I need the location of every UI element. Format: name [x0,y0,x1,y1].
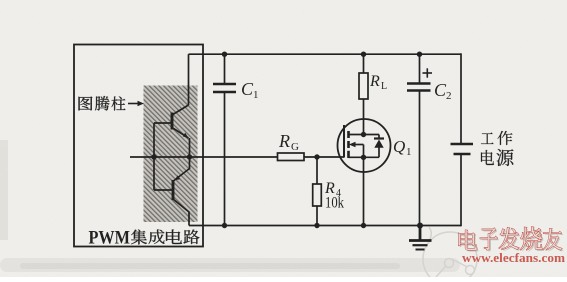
label 工作电源 [481,131,514,166]
top rail [189,53,462,55]
node on bottom rail at source [361,223,366,228]
resistor R4 [313,157,322,226]
node on top rail at C2 [417,52,422,57]
node on bottom rail at C1 [222,223,227,228]
label RL [369,73,387,92]
label Q1 [393,137,412,158]
wire: source down [363,157,365,225]
wire: top emitter to output node [189,138,191,157]
node at ground junction [417,223,423,229]
wire: base tie vertical [153,123,155,190]
ground [409,226,432,250]
resistor RL [359,54,368,134]
node: Q1 source [361,155,366,160]
label PWM集成电路 [89,228,200,249]
bottom rail [189,225,461,227]
PWM IC box [74,45,203,247]
node: base junction [151,154,156,159]
MOSFET Q1 [338,119,391,172]
resistor RG [278,153,305,161]
watermark logo circle [423,227,477,282]
capacitor C2 [407,54,431,225]
watermark text 电子发烧友 [460,229,564,252]
battery (working supply) [451,53,474,226]
label R4 10k [324,180,344,212]
node on bottom rail at R4 [314,223,319,228]
node: totem output [187,154,192,159]
label C2 [434,80,452,102]
transistor Q-top (NPN) [154,105,189,138]
node on top rail at RL [361,52,366,57]
transistor Q-bottom (PNP) [154,157,190,226]
scan smudge bottom [0,258,460,272]
node: gate junction [314,154,319,159]
capacitor C1 [213,54,236,225]
scan smudge left edge [0,140,8,240]
node: Q1 drain [361,132,366,137]
wire: totem-pole input (drive) [130,156,344,158]
node on top rail at C1 [222,52,227,57]
svg-text:www.elecfans.com: www.elecfans.com [462,250,565,265]
label RG [278,131,299,153]
label C1 [241,79,259,101]
plus sign of C2 [423,68,433,77]
wire: top collector to rail [188,54,190,105]
body arrow of Q1 [349,142,356,147]
totem-pole hatched region [144,86,198,223]
label 图腾柱 [79,96,126,111]
body diode of Q1 [374,140,383,148]
totem-pole pointer arrow [128,103,139,105]
